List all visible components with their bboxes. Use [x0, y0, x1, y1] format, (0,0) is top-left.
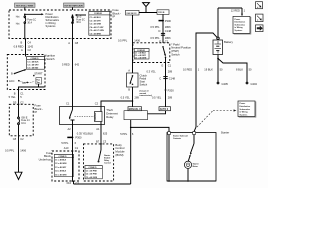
- svg-text:C5 = 48 LT GRN: C5 = 48 LT GRN: [90, 29, 105, 32]
- svg-text:0.3 YEL: 0.3 YEL: [147, 70, 157, 74]
- svg-text:1406: 1406: [20, 148, 26, 152]
- svg-text:Distribution: Distribution: [235, 21, 246, 24]
- label 0.5 YEL 289 (left): [121, 95, 140, 99]
- label 12 RED 1: [231, 9, 246, 13]
- connector C148 ticks (upper): [161, 33, 165, 35]
- fuse IGN E 10A: [18, 104, 31, 136]
- svg-text:A1: A1: [96, 127, 100, 131]
- svg-text:(BCM): (BCM): [115, 153, 123, 157]
- svg-text:642: 642: [75, 62, 80, 66]
- svg-text:289: 289: [168, 95, 173, 99]
- battery: [213, 37, 223, 54]
- svg-text:C8: C8: [75, 41, 79, 45]
- label Fuse Block - IP (lower): [35, 104, 44, 114]
- splice P200: [165, 88, 175, 92]
- label A C2: [21, 48, 31, 52]
- svg-text:in Wiring: in Wiring: [235, 27, 244, 29]
- svg-text:Contacts: Contacts: [173, 137, 181, 140]
- svg-text:CONN ID: CONN ID: [31, 58, 40, 60]
- label Theft Deterrent Relay: [106, 108, 118, 119]
- label Fuse Block - Underhood: [39, 151, 53, 162]
- svg-text:C148: C148: [165, 29, 172, 33]
- svg-text:in Wiring: in Wiring: [240, 112, 249, 114]
- svg-text:C4 = 48 BLK: C4 = 48 BLK: [55, 170, 67, 173]
- svg-text:D5: D5: [13, 100, 17, 104]
- nav icon 1: [256, 2, 263, 9]
- svg-text:Switch: Switch: [171, 53, 180, 57]
- label B C1: [14, 91, 24, 95]
- wire battery to power distribution reference: [218, 8, 243, 37]
- relay coil: [75, 107, 103, 125]
- svg-text:Switch: Switch: [140, 82, 148, 86]
- wire down to bottom run: [130, 127, 132, 184]
- svg-text:8 BLK: 8 BLK: [236, 68, 243, 72]
- svg-text:Motor: Motor: [193, 165, 199, 168]
- label 0.5 PPL 1806 lower: [150, 36, 171, 40]
- underhood fuse block dashed box: [52, 151, 79, 181]
- wire auto box to frame: [148, 111, 166, 114]
- svg-text:Fuse 3C: Fuse 3C: [76, 19, 85, 21]
- svg-text:C3 = 48 GRN: C3 = 48 GRN: [86, 176, 98, 179]
- svg-text:0.35 YEL/BLK: 0.35 YEL/BLK: [77, 131, 94, 135]
- svg-text:Hot: Hot: [16, 23, 20, 26]
- svg-text:C148: C148: [169, 77, 176, 81]
- svg-text:A: A: [68, 41, 70, 45]
- wire from left box to clutch switch A: [132, 15, 134, 73]
- fuse SWITCH 30A left: [16, 16, 37, 26]
- svg-text:Fuse 1C: Fuse 1C: [27, 19, 36, 21]
- svg-text:5 YEL: 5 YEL: [9, 95, 17, 99]
- label C C148: [159, 77, 175, 81]
- label Fuse Block - IP (top): [113, 8, 122, 18]
- svg-text:B7: B7: [96, 139, 100, 143]
- BCM starter enable driver: [98, 144, 102, 163]
- svg-text:HOT IN START+RUN: HOT IN START+RUN: [65, 4, 84, 7]
- svg-text:0.5 YEL: 0.5 YEL: [152, 95, 162, 99]
- svg-text:1406: 1406: [134, 38, 140, 42]
- svg-text:0.5 PPL: 0.5 PPL: [150, 25, 160, 29]
- svg-text:Schematics: Schematics: [240, 108, 251, 111]
- svg-text:Ign 3: Ign 3: [76, 17, 82, 19]
- banner HOT AT ALL TIMES: [15, 3, 36, 10]
- wire to off-page triangle: [18, 136, 20, 172]
- svg-text:625: 625: [103, 131, 108, 135]
- svg-text:B: B: [14, 91, 16, 95]
- banner HOT IN START AND RUN: [64, 3, 85, 10]
- power distribution reference box top: [233, 16, 251, 34]
- svg-text:Relay: Relay: [106, 115, 114, 119]
- off-page triangle connector: [15, 172, 22, 179]
- frame below manual box: [124, 111, 148, 120]
- label 0.5 YEL 289 (right): [152, 95, 173, 99]
- nav icon 2: [256, 14, 264, 22]
- svg-text:C2: C2: [20, 137, 24, 141]
- label F10 C1: [67, 181, 80, 185]
- svg-text:0.8 RED: 0.8 RED: [14, 44, 24, 48]
- svg-text:30 A: 30 A: [76, 21, 81, 24]
- svg-text:C4 = 48 LT GRY: C4 = 48 LT GRY: [90, 26, 105, 29]
- svg-text:Systems: Systems: [46, 24, 57, 28]
- label 8 BLK 50: [236, 68, 252, 72]
- svg-text:C6 = 48 BRN: C6 = 48 BRN: [90, 33, 102, 36]
- svg-text:289: 289: [135, 95, 140, 99]
- solenoid contact arm: [188, 135, 194, 162]
- svg-text:C2 = 48 GRY: C2 = 48 GRY: [90, 19, 102, 22]
- label 10 RED 1: [183, 68, 200, 72]
- svg-text:Control: Control: [104, 162, 111, 165]
- svg-text:C3 = 48 GRN: C3 = 48 GRN: [90, 23, 102, 26]
- label 19 BLK 50: [204, 68, 223, 72]
- svg-text:C8: C8: [13, 137, 17, 141]
- battery negative wires: [217, 55, 247, 84]
- svg-text:5 PPL: 5 PPL: [61, 141, 69, 145]
- starter dashed box: [167, 133, 216, 182]
- starter motor: [184, 161, 191, 168]
- svg-text:19 BLK: 19 BLK: [204, 68, 213, 72]
- label Clutch Pedal Start Switch: [140, 73, 148, 86]
- svg-text:AUTO 3: AUTO 3: [160, 108, 169, 111]
- label 0.5 PPL 1406 (clutch feed): [118, 38, 141, 42]
- svg-text:Underhood: Underhood: [39, 158, 53, 162]
- svg-text:CONN ID: CONN ID: [59, 156, 68, 158]
- CONN ID table PNP: [134, 49, 149, 60]
- svg-text:HOT AT ALL TIMES: HOT AT ALL TIMES: [16, 4, 34, 7]
- wire through underhood fuse block: [72, 151, 74, 184]
- svg-text:A2: A2: [68, 127, 72, 131]
- option box manual trans: [128, 107, 142, 111]
- svg-text:C2: C2: [20, 100, 24, 104]
- svg-text:Fuse 14: Fuse 14: [21, 120, 30, 122]
- svg-text:C201 B: C201 B: [158, 12, 165, 14]
- svg-text:0.5 PPL: 0.5 PPL: [5, 148, 15, 152]
- svg-text:C1 = 48 BLU: C1 = 48 BLU: [90, 16, 102, 19]
- label 0.35 YEL/BLK 625: [77, 131, 108, 135]
- svg-text:IP: IP: [35, 110, 38, 114]
- clutch pedal start switch: [127, 69, 139, 92]
- svg-text:Schematics: Schematics: [235, 23, 246, 26]
- label 5 RED 642: [62, 62, 80, 66]
- svg-text:0.5 PPL: 0.5 PPL: [118, 38, 128, 42]
- svg-text:C1: C1: [75, 146, 79, 150]
- svg-text:Hot: Hot: [16, 16, 20, 19]
- PNP switch contacts: [162, 46, 166, 63]
- label Ignition Switch: [46, 54, 55, 61]
- label D5 C2: [13, 100, 24, 104]
- svg-text:C4: C4: [28, 41, 32, 45]
- svg-text:0.5 PPL: 0.5 PPL: [150, 36, 160, 40]
- svg-text:C1: C1: [168, 63, 172, 67]
- svg-text:Power: Power: [235, 19, 241, 21]
- power distribution schematics note (left): [46, 12, 60, 28]
- label B C4: [21, 41, 32, 45]
- theft deterrent relay box: [60, 107, 105, 125]
- svg-text:12 RED: 12 RED: [231, 9, 240, 13]
- ground G304: [246, 82, 258, 87]
- svg-text:C2 = 48 PNK: C2 = 48 PNK: [86, 173, 98, 176]
- svg-text:C1 = 48 BLK: C1 = 48 BLK: [27, 60, 39, 63]
- bottom wire run to underhood fuse block: [74, 183, 131, 185]
- svg-text:C1 = 48 PNK: C1 = 48 PNK: [86, 169, 98, 172]
- CONN ID table underhood: [54, 155, 73, 177]
- label Starter Motor: [193, 163, 199, 168]
- svg-text:transmission): transmission): [140, 94, 153, 97]
- svg-text:C2 = 48 GRY: C2 = 48 GRY: [27, 64, 39, 67]
- svg-text:IGN E: IGN E: [21, 117, 28, 119]
- svg-text:C2 = 48 GRN: C2 = 48 GRN: [55, 162, 67, 165]
- label 0.8 RED 1142: [14, 44, 34, 48]
- svg-text:G305: G305: [222, 82, 229, 86]
- nav icon 3: [256, 25, 264, 32]
- wire relay C2 to clutch wire: [101, 101, 133, 107]
- wire relay A1 to BCM: [100, 125, 102, 144]
- wire from right box to PNP switch: [159, 14, 164, 43]
- svg-text:A: A: [128, 69, 130, 73]
- svg-text:10 A: 10 A: [21, 122, 26, 125]
- label 5 YEL 5: [9, 95, 23, 99]
- svg-text:F10: F10: [67, 181, 72, 185]
- ignition switch wiper and contacts: [9, 69, 43, 85]
- svg-text:D: D: [159, 29, 161, 33]
- wire linking boxes through antenna stem: [139, 12, 157, 14]
- svg-text:1806: 1806: [165, 36, 171, 40]
- label 5 PPL 6 (A2 wire): [61, 141, 76, 145]
- wire relay A2 to underhood fuse block: [67, 125, 73, 152]
- wire fuse to ignition switch: [24, 23, 26, 56]
- label Body Control Module BCM: [115, 143, 125, 157]
- CONN ID table fuse block IP: [89, 12, 110, 36]
- label Park Neutral Position Switch: [171, 42, 191, 56]
- label G C1: [161, 63, 171, 67]
- label E C2 pin: [159, 40, 168, 44]
- label 0.5 PPL 1406: [5, 148, 27, 152]
- label A10 C1: [64, 146, 79, 150]
- svg-text:C5 = 48 GRN: C5 = 48 GRN: [55, 173, 67, 176]
- svg-text:10 RED: 10 RED: [183, 68, 192, 72]
- svg-text:Switch: Switch: [46, 57, 55, 61]
- svg-text:P300: P300: [75, 136, 82, 140]
- fuse B-Ign 30A right: [72, 14, 86, 24]
- small reference box right of antenna: [157, 10, 169, 15]
- svg-text:C2: C2: [95, 102, 99, 106]
- label C8 C2: [13, 137, 24, 141]
- svg-text:Systems: Systems: [240, 113, 248, 116]
- label starter solenoid contacts: [173, 135, 188, 140]
- svg-text:P300: P300: [165, 19, 172, 23]
- svg-text:C1: C1: [76, 181, 80, 185]
- svg-text:1142: 1142: [28, 44, 34, 48]
- label A C8: [68, 41, 78, 45]
- svg-text:Starter: Starter: [221, 130, 229, 134]
- svg-text:5 RED: 5 RED: [62, 62, 70, 66]
- bus to starter solenoid: [131, 120, 169, 132]
- svg-text:C3 = 48 GRY: C3 = 48 GRY: [55, 166, 67, 169]
- svg-text:B: B: [128, 87, 130, 91]
- svg-text:CONN ID: CONN ID: [137, 50, 146, 52]
- wire S pin to ground bus: [168, 135, 170, 182]
- note coupe manual transmission: [140, 91, 153, 98]
- svg-text:C2: C2: [28, 48, 32, 52]
- svg-text:IP: IP: [113, 15, 116, 19]
- svg-text:C3: C3: [103, 139, 107, 143]
- svg-text:Systems: Systems: [235, 29, 243, 32]
- ignition switch output bus: [18, 84, 45, 104]
- dashed reference arrow to power distribution: [197, 109, 236, 127]
- svg-text:CONN ID: CONN ID: [94, 13, 103, 15]
- starter pin S: [168, 132, 171, 135]
- svg-text:Power: Power: [240, 103, 246, 105]
- fuse block IP lower dashed box: [9, 104, 33, 136]
- svg-text:B: B: [21, 41, 23, 45]
- arrow to power distribution text: [24, 13, 44, 16]
- svg-text:0.5 YEL: 0.5 YEL: [121, 95, 131, 99]
- wire battery to starter B+: [194, 33, 217, 132]
- svg-text:START: START: [34, 71, 43, 75]
- svg-text:5 PPL: 5 PPL: [120, 132, 128, 136]
- svg-text:C: C: [159, 77, 161, 81]
- option box auto trans: [159, 107, 171, 111]
- label 0.5 PPL 1806: [150, 25, 171, 29]
- label D C148: [159, 29, 172, 33]
- svg-text:A10: A10: [64, 146, 69, 150]
- fuse block IP dashed box: [9, 10, 111, 39]
- starter ground bus: [167, 180, 216, 182]
- BCM dashed box: [84, 144, 114, 181]
- CONN ID table BCM: [85, 166, 102, 179]
- relay contact: [69, 107, 75, 125]
- small reference box left of antenna: [126, 10, 140, 15]
- svg-text:B: B: [11, 72, 13, 76]
- label 0.3 YEL 289: [147, 70, 173, 74]
- svg-text:289: 289: [168, 70, 173, 74]
- power distribution reference box right: [238, 101, 256, 117]
- ignition switch dashed box: [7, 55, 45, 90]
- svg-text:G304: G304: [251, 82, 258, 86]
- svg-text:Battery: Battery: [224, 40, 233, 44]
- PNP switch dashed box: [133, 43, 170, 63]
- svg-text:A: A: [21, 48, 23, 52]
- wire ign3 fuse to relay C1: [72, 15, 74, 107]
- svg-text:CONN ID: CONN ID: [89, 167, 98, 169]
- svg-text:30 A: 30 A: [27, 21, 32, 24]
- wire PNP to option box: [165, 63, 167, 107]
- wire clutch B down: [132, 87, 134, 107]
- label Starter Enable Relay Control: [104, 154, 111, 165]
- svg-text:C1 = 48 BLK: C1 = 48 BLK: [55, 159, 67, 162]
- svg-text:C1: C1: [66, 102, 70, 106]
- starter pin B: [193, 132, 196, 135]
- svg-text:IGN SW C2: IGN SW C2: [127, 13, 137, 15]
- svg-text:C3 = 48 GRN: C3 = 48 GRN: [135, 57, 147, 60]
- svg-text:C1: C1: [20, 91, 24, 95]
- CONN ID table ignition switch: [27, 57, 45, 70]
- svg-text:ACC: ACC: [9, 79, 15, 83]
- antenna symbol: [143, 3, 150, 13]
- svg-text:C3 = 48 NAT: C3 = 48 NAT: [27, 67, 39, 70]
- label B7 C3: [96, 139, 107, 143]
- connector C148 ticks: [163, 77, 167, 79]
- svg-text:Off: Off: [22, 81, 26, 85]
- wire motor to ground bus: [187, 168, 189, 181]
- svg-text:Distribution: Distribution: [240, 105, 251, 108]
- svg-text:P200: P200: [168, 88, 175, 92]
- ground G305: [217, 82, 229, 87]
- svg-text:1806: 1806: [165, 25, 171, 29]
- label 5 PPL 6: [120, 132, 134, 136]
- svg-text:G: G: [161, 63, 163, 67]
